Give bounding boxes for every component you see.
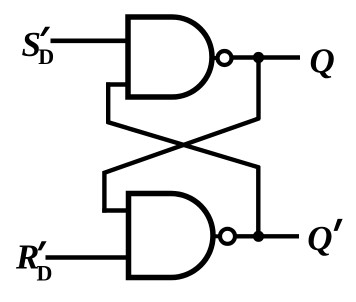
wire stub U1 arc to bubble: [211, 56, 218, 60]
NAND gate U1 body: [128, 17, 212, 97]
NAND gate U2 output bubble: [220, 229, 235, 244]
wire U1 pin 2 input horizontal: [106, 82, 128, 86]
svg-text:D: D: [37, 261, 53, 286]
wire feedback diagonal from U2 output up-left to U1 input: [107, 122, 260, 168]
wire from Q node vertical down: [256, 58, 260, 120]
wire feedback diagonal from Q node down-left to U2 input: [103, 118, 259, 173]
node Q' junction dot: [253, 231, 264, 242]
wire U2 output to Q': [235, 234, 299, 238]
label S prime mark: [40, 27, 50, 36]
wire stub U2 arc to bubble: [213, 234, 221, 238]
wire R'D input to U2 pin 2: [46, 255, 129, 260]
wire feedback vertical x=258 down to Q' node: [256, 166, 260, 236]
wire U1 pin 2 bracket vertical: [106, 82, 110, 123]
svg-text:D: D: [38, 44, 54, 69]
wire U1 output to Q: [232, 55, 300, 59]
NAND gate U1 output bubble: [218, 51, 232, 65]
label Q' prime mark: [334, 219, 343, 231]
wire U2 pin 1 input horizontal: [102, 208, 128, 212]
wire U2 pin 1 bracket vertical: [102, 171, 106, 213]
label R prime mark: [38, 241, 47, 250]
node Q junction dot: [253, 52, 264, 63]
NAND gate U2 body: [129, 194, 214, 278]
svg-text:Q: Q: [307, 219, 332, 258]
wire S'D input to U1 pin 1: [51, 38, 129, 43]
svg-text:Q: Q: [310, 42, 335, 81]
